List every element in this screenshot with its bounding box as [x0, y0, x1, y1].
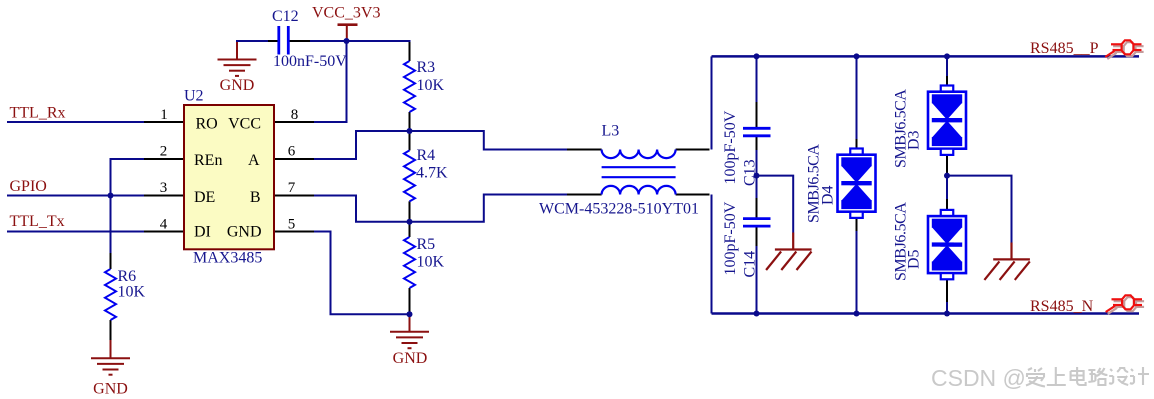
svg-text:D3: D3 [906, 130, 923, 150]
svg-text:D5: D5 [906, 249, 923, 269]
svg-text:L3: L3 [602, 123, 620, 140]
svg-text:B: B [250, 189, 261, 206]
svg-text:RO: RO [196, 115, 218, 132]
svg-text:VCC: VCC [228, 115, 261, 132]
svg-text:A: A [248, 152, 260, 169]
svg-text:10K: 10K [118, 284, 146, 301]
svg-text:GND: GND [227, 224, 262, 241]
svg-text:DE: DE [194, 189, 215, 206]
svg-text:VCC_3V3: VCC_3V3 [312, 5, 380, 22]
svg-text:8: 8 [291, 107, 299, 123]
svg-text:6: 6 [288, 144, 296, 160]
svg-text:DI: DI [194, 224, 211, 241]
svg-text:U2: U2 [184, 88, 204, 105]
svg-text:R6: R6 [118, 268, 137, 285]
svg-text:SMBJ6.5CA: SMBJ6.5CA [806, 144, 823, 223]
svg-text:SMBJ6.5CA: SMBJ6.5CA [893, 89, 910, 168]
svg-text:4: 4 [160, 217, 168, 233]
svg-text:C14: C14 [742, 251, 759, 278]
svg-text:CSDN @: CSDN @ [931, 365, 1026, 391]
svg-text:5: 5 [288, 217, 296, 233]
svg-text:WCM-453228-510YT01: WCM-453228-510YT01 [539, 201, 699, 218]
svg-text:R3: R3 [417, 59, 436, 76]
svg-text:R5: R5 [417, 236, 436, 253]
svg-text:10K: 10K [417, 77, 445, 94]
svg-text:RS485__P: RS485__P [1030, 40, 1099, 57]
svg-text:100pF-50V: 100pF-50V [722, 110, 739, 184]
svg-text:4.7K: 4.7K [416, 165, 448, 182]
svg-text:GND: GND [393, 350, 428, 367]
svg-text:TTL_Rx: TTL_Rx [10, 105, 66, 122]
svg-text:1: 1 [160, 107, 168, 123]
svg-text:2: 2 [160, 144, 168, 160]
svg-text:7: 7 [288, 180, 296, 196]
svg-text:MAX3485: MAX3485 [193, 250, 262, 267]
svg-text:REn: REn [194, 152, 222, 169]
svg-text:10K: 10K [417, 254, 445, 271]
svg-text:C12: C12 [272, 8, 299, 25]
svg-text:D4: D4 [820, 185, 837, 205]
svg-text:R4: R4 [417, 147, 436, 164]
svg-text:GPIO: GPIO [10, 178, 47, 195]
svg-text:100nF-50V: 100nF-50V [273, 53, 347, 70]
svg-text:100pF-50V: 100pF-50V [722, 201, 739, 275]
svg-text:C13: C13 [742, 159, 759, 186]
svg-text:RS485_N: RS485_N [1030, 298, 1094, 315]
svg-text:TTL_Tx: TTL_Tx [10, 213, 65, 230]
svg-text:3: 3 [160, 180, 168, 196]
svg-text:GND: GND [93, 381, 128, 398]
svg-text:GND: GND [220, 77, 255, 94]
